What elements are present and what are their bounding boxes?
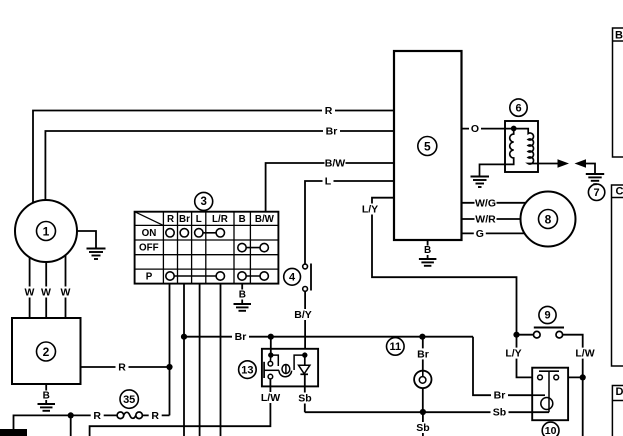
svg-text:35: 35 (123, 394, 135, 406)
wire B/Y (stop switch to relay 13) (304, 291, 306, 349)
legend box C (cut off at right edge) (612, 185, 623, 366)
wire generator to ground (77, 231, 96, 248)
svg-text:B: B (239, 290, 246, 301)
node relay 13 Br junction (268, 352, 273, 357)
wire L/W (relay 13 output, down and left off-page) (90, 379, 271, 436)
label Sb at starter relay (491, 407, 509, 419)
svg-text:D: D (616, 386, 623, 398)
svg-text:C: C (616, 186, 623, 198)
ground lead B (main switch) (239, 284, 246, 304)
svg-text:B: B (615, 30, 623, 42)
label Br lamp branch (415, 348, 432, 360)
svg-text:10: 10 (545, 425, 557, 436)
ground (generator 1) (87, 249, 106, 260)
svg-text:B: B (43, 391, 50, 402)
label 9 (start switch) (539, 306, 556, 323)
switch contacts OFF row (238, 243, 269, 251)
labels W W W (24, 287, 71, 299)
label 13 (cut-off relay) (239, 361, 257, 379)
wire W phase 1 (29, 257, 31, 318)
label Sb relay output (296, 393, 314, 405)
label L/Y upper (360, 204, 381, 216)
label O (469, 123, 481, 135)
node fuse-left junction (68, 412, 74, 418)
svg-text:P: P (146, 272, 153, 283)
svg-text:Sb: Sb (493, 407, 506, 419)
wire G (pickup to CDI) (462, 232, 525, 234)
svg-text:W/G: W/G (475, 197, 496, 209)
wire L/Y (CDI to start switch 9) (372, 198, 517, 335)
node L/Y junction (513, 332, 519, 338)
svg-text:8: 8 (545, 213, 552, 227)
svg-text:Sb: Sb (298, 393, 311, 405)
svg-text:9: 9 (544, 310, 550, 322)
node Br at switch column (181, 334, 187, 340)
pickup coil 8 (521, 192, 576, 247)
coil 6 primary winding (480, 129, 514, 176)
node L/W junction (580, 374, 586, 380)
label L (323, 176, 334, 188)
label Br at starter relay (491, 390, 508, 402)
table row labels (139, 228, 159, 283)
wire W phase 3 (65, 255, 67, 318)
wire lamp to Sb line (422, 388, 424, 412)
starter relay 10 (532, 368, 568, 421)
legend box B (cut off at right edge) (613, 28, 623, 157)
label B/W (325, 158, 346, 170)
svg-text:13: 13 (241, 364, 253, 376)
node Br to indicator lamp (419, 334, 425, 340)
start switch 9 (534, 328, 565, 339)
node R junction (166, 364, 172, 370)
relay 10 coil (532, 395, 553, 409)
ground (spark plug) (586, 174, 604, 184)
label 7 (spark plug) (588, 184, 604, 200)
wire Br to starter relay 10 (473, 337, 532, 396)
spark plug 7 (gap arrows) (538, 159, 595, 173)
wire Br lamp branch (422, 337, 424, 371)
svg-text:B/W: B/W (255, 214, 275, 225)
ground (main switch) (234, 304, 252, 311)
label 35 (fuse) (120, 390, 138, 408)
svg-text:R: R (167, 214, 174, 225)
label L/W right (574, 348, 597, 360)
svg-text:W: W (25, 287, 35, 299)
svg-text:1: 1 (43, 225, 50, 239)
svg-text:L: L (325, 176, 332, 188)
svg-text:Sb: Sb (416, 422, 429, 434)
svg-text:11: 11 (389, 341, 401, 353)
svg-text:6: 6 (515, 102, 521, 114)
AC generator 1 (15, 200, 77, 262)
relay 13 coil and links (270, 355, 304, 377)
ground (rectifier 2) (38, 404, 56, 411)
wire L/R column down (220, 284, 222, 436)
switch contacts P row (166, 272, 269, 280)
fuse 35 (117, 412, 142, 419)
label R on top wire (322, 105, 335, 117)
coil 6 secondary winding (514, 129, 538, 164)
ground (CDI unit 5) (419, 259, 437, 266)
wire B/W (CDI to main switch) (266, 163, 394, 212)
svg-text:W/R: W/R (475, 214, 496, 226)
starting circuit cut-off relay 13 (262, 349, 318, 387)
ground lead B (CDI unit 5) (424, 240, 431, 259)
wire battery feed down (70, 415, 72, 436)
wire L/Y down to starter relay (517, 335, 533, 378)
legend box D (cut off at right edge) (612, 386, 623, 436)
wire Br column down (183, 284, 185, 436)
svg-text:B/Y: B/Y (294, 309, 312, 321)
ground (ignition coil primary) (471, 177, 490, 188)
svg-text:O: O (471, 123, 479, 135)
wire Br (generator to CDI unit) (45, 131, 394, 200)
svg-text:R: R (325, 105, 333, 117)
svg-text:R: R (93, 410, 101, 422)
node Sb junction (420, 409, 426, 415)
label G (474, 228, 486, 240)
svg-text:L: L (196, 214, 202, 225)
label 10 (starter relay) (542, 422, 559, 436)
svg-text:Br: Br (417, 348, 429, 360)
svg-text:G: G (476, 228, 484, 240)
svg-text:B/W: B/W (325, 158, 346, 170)
engine stop switch 4 (303, 264, 311, 292)
relay 10 internal switch (538, 371, 559, 412)
battery 12 (cut off at edge) (0, 429, 27, 436)
rectifier 2 (12, 318, 81, 384)
wire Sb (relay 13 diode to starter relay) (305, 374, 549, 412)
wire R rectifier output (81, 366, 171, 368)
node relay 13 B/Y junction (302, 352, 307, 357)
svg-text:Br: Br (235, 331, 247, 343)
main switch 3 (table) (135, 212, 279, 284)
label W/R (475, 214, 497, 226)
svg-text:7: 7 (594, 187, 600, 199)
svg-text:ON: ON (142, 228, 157, 239)
svg-text:B: B (239, 214, 246, 225)
svg-text:OFF: OFF (139, 243, 159, 254)
svg-text:R: R (118, 362, 126, 374)
relay 13 internal switch (264, 361, 279, 379)
svg-text:5: 5 (424, 140, 431, 154)
label 11 (indicator lamp) (387, 338, 405, 356)
svg-text:2: 2 (43, 345, 50, 359)
wire Br bus (main switch to relays) (184, 336, 473, 338)
node coil 6 input junction (511, 126, 517, 132)
svg-text:L/W: L/W (261, 392, 280, 404)
wire L (CDI to engine stop switch) (305, 181, 394, 264)
svg-text:L/W: L/W (575, 348, 594, 360)
svg-text:Br: Br (326, 126, 338, 138)
label 4 (engine stop switch) (284, 268, 301, 285)
svg-text:Br: Br (179, 214, 190, 225)
svg-text:W: W (41, 287, 51, 299)
node Br to relay 13 (268, 334, 274, 340)
label R on rectifier output (116, 362, 129, 374)
wire W/G (pickup to CDI) (462, 202, 526, 204)
svg-text:L/R: L/R (212, 214, 228, 225)
wire W phase 2 (45, 262, 47, 318)
relay 13 diode (299, 355, 310, 374)
labels R around fuse (91, 410, 162, 422)
label W/G (475, 197, 497, 209)
wire fuse line R (14, 415, 170, 429)
svg-text:4: 4 (289, 272, 296, 284)
wire Br drop to relay 13 (270, 337, 272, 355)
label L/Y lower (503, 348, 524, 360)
wire L/W (switch 9 to starter relay and down) (563, 335, 583, 436)
ground lead B (rectifier 2) (43, 384, 50, 404)
svg-text:B: B (424, 245, 431, 256)
wire R column down to fuse line (169, 284, 171, 416)
svg-text:W: W (61, 287, 71, 299)
ignition coil 6 (505, 121, 538, 172)
label B/Y (293, 309, 313, 321)
wire O (CDI to ignition coil) (462, 128, 506, 130)
table header labels (167, 214, 275, 225)
CDI unit 5 (394, 51, 462, 240)
label L/W relay output (259, 392, 282, 404)
indicator lamp 11 (414, 371, 431, 388)
wire L column down (199, 284, 201, 436)
svg-text:3: 3 (200, 196, 206, 208)
svg-text:L/Y: L/Y (505, 348, 521, 360)
label Br on top wire (323, 126, 340, 138)
wire Sb down off-page (422, 412, 424, 436)
svg-text:Br: Br (494, 390, 506, 402)
switch contacts ON row (166, 229, 225, 237)
wire W/R (pickup to CDI) (462, 218, 521, 220)
wire R (generator to CDI unit) (33, 111, 394, 203)
label Br bus (232, 331, 249, 343)
wire L/Y to switch 9 (517, 334, 534, 336)
label 6 (ignition coil) (510, 99, 527, 116)
svg-text:L/Y: L/Y (362, 204, 378, 216)
svg-text:R: R (151, 410, 159, 422)
label Sb down (414, 422, 432, 434)
label 3 (main switch) (195, 192, 213, 210)
